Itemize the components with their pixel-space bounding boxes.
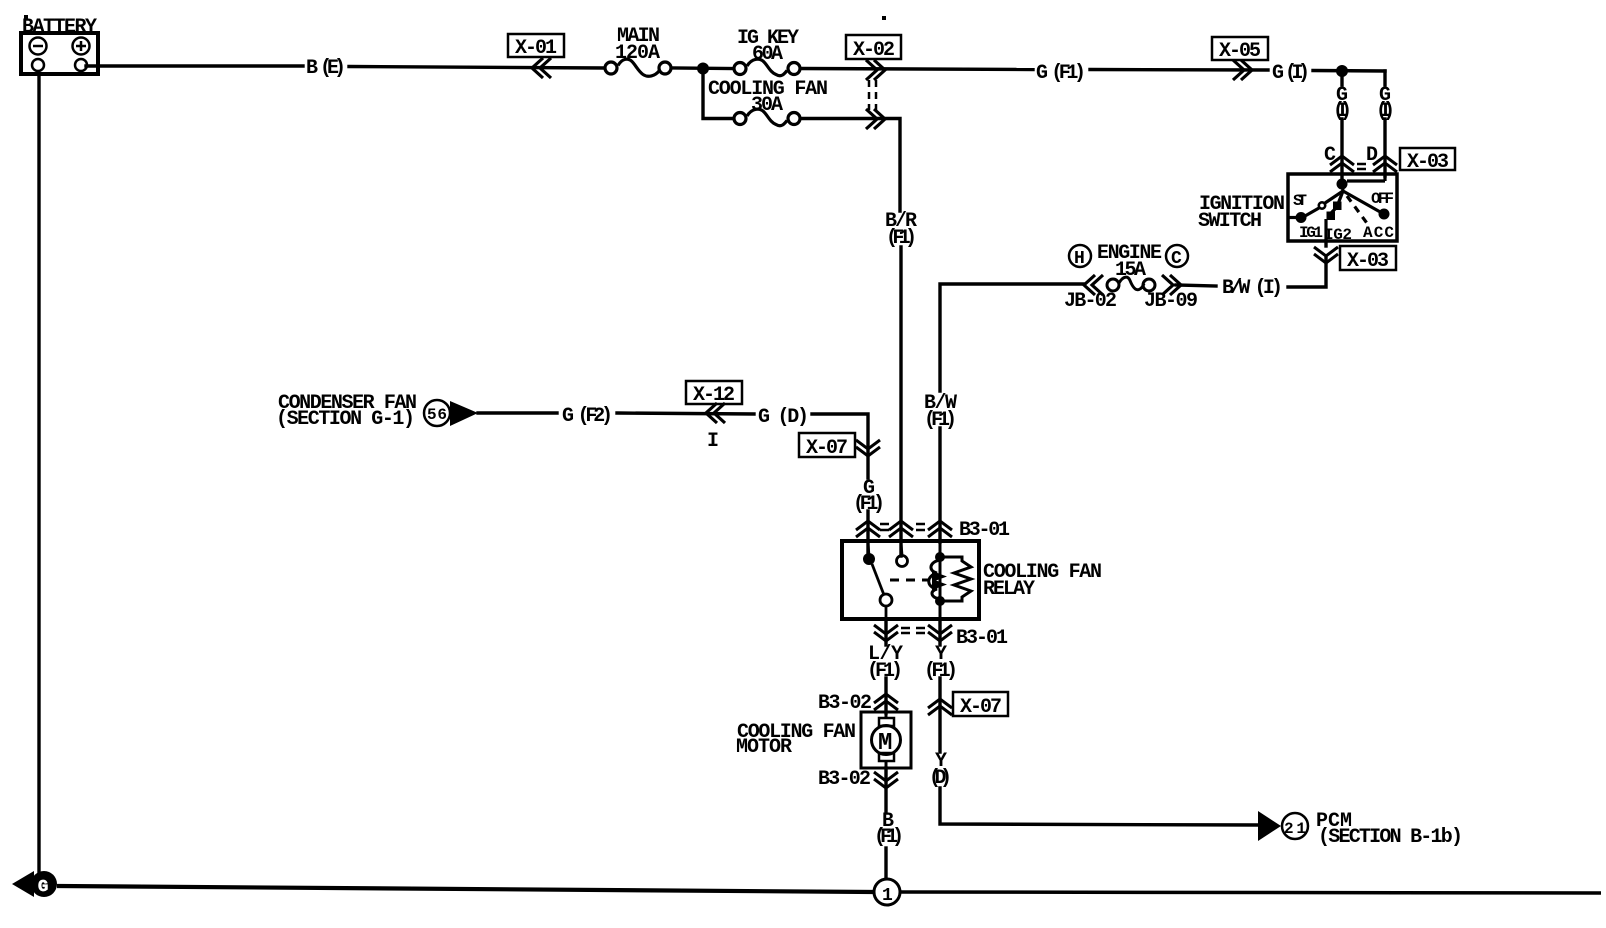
wire G(F1) text to G(I) text through X-05: [1090, 68, 1268, 72]
svg-text:B3-02: B3-02: [818, 768, 871, 791]
fuse ENGINE 15A symbol: [1107, 277, 1155, 291]
svg-text:ST: ST: [1293, 192, 1307, 210]
svg-text:1: 1: [882, 886, 893, 906]
wire corner down to G(I) label right: [1383, 71, 1386, 85]
relay coil: [929, 543, 971, 619]
wire Y relay bottom to label: [938, 619, 941, 645]
pin chevron B3-01 B/W up: [928, 521, 952, 537]
pin chevron B3-02 down: [874, 772, 898, 788]
svg-text:(F1): (F1): [867, 660, 903, 683]
svg-text:MOTOR: MOTOR: [736, 736, 792, 759]
svg-text:X-03: X-03: [1407, 151, 1449, 174]
svg-text:JB-02: JB-02: [1064, 290, 1117, 313]
wire B/W (F1) label gap segment: [938, 428, 941, 542]
relay switch arm: [872, 564, 884, 595]
svg-text:30A: 30A: [751, 94, 783, 117]
svg-text:(F1): (F1): [886, 227, 917, 250]
off-page arrow to PCM: [1258, 811, 1281, 841]
junction block pin H: [1069, 245, 1091, 267]
svg-text:I: I: [707, 430, 719, 453]
dashed ties B3-01 bottom: [901, 628, 925, 633]
svg-text:BATTERY: BATTERY: [22, 16, 97, 39]
pin chevron B3-01 B/R up: [889, 521, 913, 537]
wire battery negative down to ground G: [37, 74, 40, 872]
svg-text:ACC: ACC: [1363, 224, 1394, 242]
wire L/Y relay bottom to label: [884, 619, 887, 645]
wire junction down to G(I) label left: [1340, 71, 1343, 85]
pin chevron C up: [1330, 156, 1354, 172]
wire G(F2) text to X-12 chevron to G(D) text: [617, 413, 754, 414]
junction node dot G(I): [1336, 65, 1348, 77]
cooling fan motor box: [861, 712, 911, 768]
ignition switch interior: [1288, 176, 1390, 241]
svg-text:B3-01: B3-01: [956, 627, 1008, 650]
svg-text:60A: 60A: [752, 43, 783, 66]
connector X-03 bottom: [1340, 246, 1396, 273]
pin chevron X-07 Y up: [928, 699, 952, 715]
connector chevron JB-09 right-pointing: [1162, 275, 1181, 295]
wire B/W vertical relay to corner to ENGINE fuse: [940, 284, 1083, 391]
wire IG KEY fuse to G(F1) text: [801, 69, 1033, 70]
battery: [21, 33, 98, 74]
junction node dot: [697, 63, 709, 75]
svg-text:C: C: [1171, 249, 1182, 269]
connector X-07 upper: [799, 433, 855, 460]
ground bus line left segment: [57, 886, 874, 892]
pin chevron B3-01 Y down: [928, 625, 952, 641]
speck above X-02: [882, 16, 886, 20]
connector chevron X-12 left-pointing: [706, 403, 725, 423]
svg-text:(I): (I): [1376, 100, 1395, 123]
connector X-02: [846, 35, 901, 62]
svg-text:(SECTION B-1b): (SECTION B-1b): [1318, 826, 1463, 849]
wire G(F1) condenser label to relay: [866, 511, 869, 556]
svg-text:X-05: X-05: [1219, 40, 1261, 63]
svg-text:G (D): G (D): [758, 406, 809, 429]
svg-text:(F1): (F1): [853, 493, 885, 516]
svg-text:(F1): (F1): [924, 660, 958, 683]
cooling fan relay box: [842, 541, 979, 619]
svg-text:(D): (D): [929, 767, 952, 790]
wire B(E) battery to text gap: [86, 64, 303, 67]
wire condenser fan arrow to G(F2) text: [478, 411, 557, 414]
wire L/Y label to motor: [884, 678, 887, 713]
wire 30A fuse to corner to B/R vertical: [801, 119, 900, 212]
connector chevron X-05 right-pointing: [1233, 60, 1252, 80]
fuse IG KEY 60A: [734, 59, 800, 76]
wire G(D) text to corner down: [812, 414, 868, 478]
svg-text:JB-09: JB-09: [1144, 290, 1198, 313]
connector chevron X-02 right-pointing on 30A wire: [866, 109, 885, 129]
svg-text:X-01: X-01: [515, 37, 557, 60]
connector X-02 dashed tie line: [868, 80, 871, 110]
relay NO contact circle: [897, 556, 908, 567]
pin chevron B3-01 L/Y down: [874, 625, 898, 641]
wire motor bottom to B(F1) label: [884, 768, 887, 812]
wire ignition switch output chevron to box: [1324, 241, 1327, 246]
connector X-03 top: [1400, 148, 1455, 174]
svg-text:B/W (I): B/W (I): [1222, 277, 1283, 300]
ground bus line right segment: [900, 892, 1601, 893]
svg-text:56: 56: [427, 406, 447, 424]
fuse COOLING FAN 30A: [734, 109, 800, 126]
connector chevron JB-02 left-pointing: [1084, 275, 1103, 295]
wire Y label to Y(D) label: [938, 678, 941, 752]
svg-text:(F1): (F1): [924, 409, 957, 432]
svg-text:X-12: X-12: [693, 384, 735, 407]
svg-text:X-07: X-07: [960, 696, 1002, 719]
svg-text:H: H: [1074, 249, 1085, 269]
svg-text:RELAY: RELAY: [983, 578, 1035, 601]
motor circle M: [872, 726, 901, 755]
dashed ties B3-01 top: [880, 524, 925, 530]
wire B/R label to relay: [899, 247, 902, 556]
off-page connector circle 56: [424, 400, 450, 426]
svg-text:(F1): (F1): [874, 826, 904, 849]
svg-text:OFF: OFF: [1371, 190, 1394, 208]
connector X-07 lower: [953, 692, 1008, 719]
wire Y(D) label to corner to PCM arrow: [940, 788, 1258, 825]
ignition switch box: [1288, 174, 1397, 241]
svg-text:120A: 120A: [615, 42, 660, 65]
svg-text:(I): (I): [1333, 100, 1352, 123]
svg-text:SWITCH: SWITCH: [1198, 210, 1262, 233]
wire B(E) text gap to MAIN fuse: [349, 67, 604, 69]
svg-text:G (I): G (I): [1272, 62, 1310, 85]
wire B(F1) label to ground bus circle 1: [884, 848, 887, 880]
svg-text:IG1: IG1: [1299, 224, 1323, 242]
connector X-12: [686, 381, 742, 407]
fuse MAIN 120A: [605, 59, 671, 76]
wire MAIN fuse to junction: [672, 66, 733, 70]
off-page connector circle 21: [1282, 813, 1308, 839]
connector chevron X-01 left-pointing: [532, 58, 551, 78]
connector chevron X-02 right-pointing on main wire: [866, 60, 885, 80]
junction block pin C: [1166, 245, 1188, 267]
relay common contact dot: [863, 553, 875, 565]
relay stub to common: [868, 543, 869, 556]
svg-text:X-07: X-07: [806, 437, 848, 460]
svg-text:(SECTION G-1): (SECTION G-1): [276, 408, 415, 431]
speck top left: [24, 15, 28, 19]
svg-text:B (E): B (E): [306, 57, 346, 80]
pin chevron X-07 down: [856, 440, 880, 456]
svg-text:X-02: X-02: [853, 39, 895, 62]
wire B/W(I) text to ignition switch bottom corner: [1288, 258, 1326, 287]
svg-text:B3-01: B3-01: [959, 519, 1010, 542]
connector X-05: [1212, 37, 1268, 63]
svg-text:G: G: [38, 878, 48, 897]
wire G(I) text to corner: [1313, 69, 1385, 73]
wire left G(I) label to ignition switch C pin: [1340, 119, 1343, 180]
ground symbol G: [12, 871, 34, 897]
pin chevron below ignition switch down: [1314, 247, 1338, 263]
wire branch junction down to 30A fuse: [703, 69, 733, 119]
pin chevron B3-02 up: [874, 694, 898, 710]
off-page arrow right: [450, 401, 478, 426]
dashed tie between C and D chevrons: [1357, 164, 1366, 169]
svg-text:G (F2): G (F2): [562, 405, 613, 428]
wire ENGINE fuse right to B/W(I) text: [1176, 285, 1216, 286]
motor bottom terminal: [879, 753, 894, 761]
motor top terminal: [879, 718, 894, 726]
wire right G(I) label to ignition switch D pin: [1383, 119, 1386, 176]
pin chevron D up: [1373, 156, 1397, 172]
svg-text:X-03: X-03: [1347, 250, 1389, 273]
relay moving contact circle: [880, 594, 892, 606]
pin chevron B3-01 G up: [856, 521, 880, 537]
svg-text:G (F1): G (F1): [1036, 62, 1086, 85]
relay actuation dashed link: [890, 579, 928, 582]
ground bus connector circle 1: [874, 879, 900, 905]
connector X-01: [508, 34, 564, 60]
svg-text:IG2: IG2: [1324, 226, 1352, 244]
